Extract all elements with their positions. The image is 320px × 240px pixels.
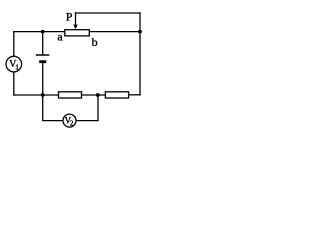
wire wiper vertical xyxy=(75,13,77,25)
wire bottom left segment xyxy=(14,94,59,96)
wire battery lower lead xyxy=(42,63,44,95)
wire top left segment xyxy=(14,31,65,33)
rheostat P (slide resistor) xyxy=(65,30,90,36)
wire left rail lower xyxy=(13,72,15,95)
wire V2 right branch xyxy=(76,95,98,121)
wire battery upper lead xyxy=(42,32,44,55)
node dot mid bottom (R1-R2 junction) xyxy=(96,93,100,97)
svg-text:2: 2 xyxy=(70,119,74,127)
resistor R2 xyxy=(105,92,128,98)
rheostat wiper arrowhead xyxy=(73,25,77,30)
wire left rail upper xyxy=(13,32,15,57)
node dot top (battery/top wire junction) xyxy=(41,30,45,34)
wire V2 left branch xyxy=(43,95,63,121)
svg-text:b: b xyxy=(92,35,98,49)
wire top right segment (b to right rail) xyxy=(89,31,140,33)
wire wiper horizontal xyxy=(76,12,141,14)
battery short thick plate (-) xyxy=(39,60,46,63)
node dot right (wiper/top wire junction) xyxy=(138,30,142,34)
svg-text:1: 1 xyxy=(15,63,19,72)
svg-text:P: P xyxy=(66,9,73,23)
wire R1 to mid dot xyxy=(82,94,106,96)
voltmeter V1 circle xyxy=(6,56,22,72)
voltmeter V2 circle xyxy=(63,114,76,127)
resistor R1 xyxy=(59,92,82,98)
wire R2 to right rail xyxy=(129,94,140,96)
wire right rail xyxy=(139,13,141,95)
svg-text:a: a xyxy=(57,30,63,44)
node dot bottom left (battery/bottom wire junction) xyxy=(41,93,45,97)
battery long plate (+) xyxy=(36,54,50,56)
